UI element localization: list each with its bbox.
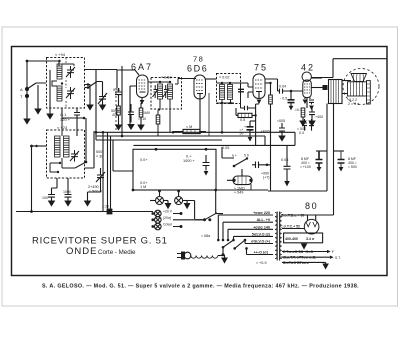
wire	[218, 255, 223, 257]
node	[57, 171, 59, 173]
arrow down 2	[183, 200, 188, 202]
bus	[96, 139, 222, 141]
loudspeaker	[343, 69, 379, 107]
wire	[85, 84, 91, 86]
electrolytic in box	[203, 155, 210, 171]
node	[254, 114, 256, 116]
wire	[31, 146, 33, 212]
svg-text:0.04: 0.04	[279, 85, 286, 89]
audio section box	[113, 140, 291, 214]
svg-text:- 0.5: - 0.5	[280, 97, 287, 101]
rectifier 80 circuit	[268, 104, 341, 269]
node	[95, 131, 98, 134]
svg-text:500: 500	[96, 150, 102, 154]
wire diode load	[241, 83, 254, 98]
ground	[47, 114, 53, 119]
wire to ground arrow	[89, 85, 91, 106]
secondary winding bumps	[280, 213, 282, 259]
svg-text:3.4 σ: 3.4 σ	[306, 237, 315, 241]
tube 80 filaments	[306, 222, 317, 227]
svg-text:75: 75	[254, 63, 268, 73]
capacitor IF2	[238, 89, 244, 92]
wire riser	[102, 132, 104, 211]
switch wire to coil box	[27, 83, 46, 89]
svg-text:42: 42	[301, 63, 315, 73]
stub	[334, 150, 345, 152]
svg-text:78: 78	[193, 55, 204, 64]
coupling to 42	[265, 79, 303, 110]
node	[290, 90, 293, 93]
svg-text:0.01: 0.01	[113, 88, 120, 92]
cathode arrow	[303, 100, 308, 105]
wire from bus	[110, 208, 112, 210]
resistor M horizontal	[183, 129, 200, 133]
coil IF1a	[158, 84, 163, 99]
svg-text:≈ 30: ≈ 30	[96, 155, 103, 159]
node	[30, 210, 33, 213]
wire	[49, 70, 51, 114]
wire from 80 plate up	[333, 104, 335, 216]
resistor bias	[301, 108, 305, 117]
screen blob component	[323, 85, 328, 90]
tube 42 grids	[304, 84, 310, 93]
resistor 50M	[117, 106, 121, 115]
electrolytic pair	[302, 119, 307, 131]
tube 75 grids	[255, 80, 263, 88]
tube 75 envelope	[253, 74, 265, 99]
svg-text:ONDE: ONDE	[66, 246, 97, 257]
svg-text:≈ +94: ≈ +94	[55, 52, 66, 57]
resistor plate load	[269, 95, 273, 104]
field coil	[348, 82, 367, 96]
wire stub	[95, 132, 97, 140]
ground	[116, 125, 122, 130]
ground	[279, 136, 285, 141]
svg-text:≈ 0.02: ≈ 0.02	[219, 76, 230, 80]
svg-text:2 = 4 σ: 2 = 4 σ	[348, 102, 360, 106]
jack 3	[151, 223, 161, 230]
node	[87, 83, 90, 86]
wire	[62, 64, 74, 66]
svg-text:0.+: 0.+	[186, 155, 192, 159]
secondary row 3	[282, 261, 326, 263]
bus	[134, 144, 296, 146]
secondary row 2	[282, 256, 330, 258]
wire risers right	[294, 132, 296, 145]
wire cathode	[199, 99, 201, 132]
cap	[309, 100, 314, 104]
arrow	[302, 243, 307, 249]
wire ground branch	[37, 85, 39, 109]
speaker dashed circle	[343, 69, 379, 105]
node	[158, 190, 161, 193]
svg-text:≈0.1: ≈0.1	[295, 108, 302, 112]
tap 140	[228, 229, 273, 240]
wire	[140, 103, 142, 125]
tube 6A7 grids	[139, 80, 147, 89]
wire grid lead 6D6	[178, 79, 196, 85]
svg-text:Corte - Medie: Corte - Medie	[98, 249, 136, 256]
wire	[50, 163, 58, 172]
node	[323, 86, 326, 89]
wire	[270, 83, 272, 95]
tap 110	[245, 243, 273, 245]
speaker cone	[351, 74, 367, 82]
trimmer C1	[66, 66, 75, 78]
electrolytic C2 8MF	[338, 160, 345, 164]
HT secondary top	[282, 214, 334, 216]
svg-text:≈ S49: ≈ S49	[234, 191, 243, 195]
svg-text:1000: 1000	[63, 190, 71, 194]
wire	[113, 140, 133, 171]
svg-text:+400: +400	[315, 115, 323, 119]
svg-text:ALL. +0: ALL. +0	[257, 218, 270, 222]
coil IF2a	[220, 85, 225, 100]
svg-text:S. A. GELOSO. — Mod. G. 51. —: S. A. GELOSO. — Mod. G. 51. — Super 5 va…	[42, 284, 359, 290]
coil L2b	[64, 136, 70, 157]
power transformer	[201, 211, 282, 265]
plug	[177, 254, 181, 258]
electrolytic grid leak	[290, 91, 292, 100]
wire plate to transformer	[311, 77, 322, 79]
svg-text:B.σ.T.B.σ.+ 30: B.σ.T.B.σ.+ 30	[281, 214, 304, 218]
speaker terminal strip	[367, 81, 371, 104]
cap 0.05	[279, 123, 285, 136]
wire	[264, 136, 266, 145]
bottom bus wire	[16, 211, 107, 213]
tube 80 plate leads	[308, 215, 316, 220]
ground	[100, 105, 106, 110]
svg-text:1:30: 1:30	[102, 205, 109, 209]
ground	[87, 105, 93, 110]
svg-text:≈ 08a: ≈ 08a	[201, 234, 211, 238]
svg-text:+: +	[244, 125, 246, 129]
wire cathode	[305, 98, 310, 109]
pot 1M volume	[233, 176, 252, 185]
node	[58, 60, 60, 62]
tube 75 cathode	[256, 92, 262, 99]
cap bias	[309, 106, 315, 119]
wire	[303, 117, 312, 121]
svg-text:9 +: 9 +	[232, 154, 237, 158]
node	[221, 102, 223, 104]
wire	[158, 99, 160, 115]
svg-text:6D6: 6D6	[187, 64, 208, 74]
svg-text:0.5: 0.5	[240, 118, 245, 122]
cord loops	[191, 256, 218, 259]
cap tone	[252, 162, 271, 169]
coil IF1b	[168, 84, 173, 99]
svg-text:+σσσ 220: +σσσ 220	[253, 211, 270, 215]
wire grid cap	[117, 70, 139, 75]
node	[180, 212, 183, 215]
tap low	[250, 254, 273, 256]
svg-text:400-400: 400-400	[285, 237, 298, 241]
internal partition	[65, 58, 67, 109]
wire	[88, 183, 101, 201]
wire	[85, 87, 89, 89]
capacitor 100	[48, 188, 55, 201]
wire screen	[311, 87, 325, 89]
lamp lead	[178, 191, 180, 197]
filter capacitors right	[300, 151, 357, 172]
wire cathode column	[256, 104, 259, 145]
wire plate	[265, 82, 271, 84]
wires	[173, 214, 205, 227]
ground arrow	[323, 262, 328, 268]
svg-text:2+490: 2+490	[88, 185, 99, 189]
trimmer C2	[66, 87, 75, 99]
B plus riser	[333, 59, 387, 78]
wire	[282, 228, 304, 230]
wire 42 plate to OT	[311, 77, 333, 79]
core lines	[277, 212, 279, 261]
svg-text:RICEVITORE SUPER G. 51: RICEVITORE SUPER G. 51	[32, 236, 168, 247]
pilot lamp network	[102, 190, 217, 230]
trimmer IF1a	[153, 85, 159, 98]
svg-text:≈ 6.5σ: ≈ 6.5σ	[161, 76, 172, 80]
svg-text:σGLV.O (+): σGLV.O (+)	[251, 240, 271, 244]
capacitor diode filter	[241, 106, 256, 110]
svg-text:1000 +: 1000 +	[183, 159, 196, 163]
arrow	[284, 181, 290, 186]
capacitor 1000	[65, 178, 72, 201]
svg-text:F: F	[332, 250, 334, 254]
wires antenna section	[62, 70, 117, 212]
wire riser	[110, 136, 112, 209]
wire riser	[121, 66, 123, 136]
lamp lead	[159, 191, 161, 197]
wire IF2 column down to switch	[222, 147, 234, 158]
IF transformer 1	[148, 76, 196, 137]
wire plate to grid	[148, 81, 170, 83]
coil IF2b	[228, 85, 233, 100]
6D6 stage	[194, 75, 217, 136]
capacitor	[128, 104, 134, 123]
svg-text:≈ M: ≈ M	[186, 125, 192, 129]
wire	[117, 70, 137, 128]
tube 6D6 cathode	[197, 94, 203, 100]
switch levers	[223, 240, 245, 248]
node antenna top	[26, 60, 29, 63]
tap 125	[234, 236, 274, 240]
6A7 stage	[111, 66, 150, 136]
trimmer IF1b	[163, 85, 169, 98]
switch tone	[234, 159, 247, 167]
wire	[236, 108, 256, 115]
svg-text:E.T.σ.σO 5Ω +5.-O: E.T.σ.σO 5Ω +5.-O	[283, 250, 313, 254]
ground	[49, 201, 55, 206]
mains plug and cord	[177, 252, 223, 260]
trimmer C osc2	[70, 150, 79, 162]
wire	[217, 100, 235, 133]
switch osc	[62, 158, 86, 168]
wire	[217, 82, 241, 84]
oscillator section wires	[16, 118, 108, 213]
svg-text:80: 80	[305, 201, 318, 211]
bottom wire to OT	[216, 189, 268, 191]
tube 6D6 envelope	[194, 75, 206, 99]
ground arrow mains	[222, 255, 227, 263]
wire	[270, 104, 272, 191]
wire	[173, 131, 206, 133]
wire	[227, 169, 242, 180]
jack 2	[151, 217, 161, 224]
svg-text:≈ 500: ≈ 500	[348, 165, 357, 169]
arrow	[204, 171, 209, 176]
svg-text:C.σ.T.C.+ 52: C.σ.T.C.+ 52	[280, 225, 300, 229]
output transformer	[311, 59, 387, 104]
wire top bus	[27, 61, 59, 66]
wire	[85, 69, 118, 71]
svg-text:1 M: 1 M	[140, 185, 146, 189]
switch lever	[88, 82, 103, 88]
svg-text:≈005: ≈005	[277, 119, 285, 123]
wire	[268, 104, 327, 192]
decoupling right of 75	[277, 119, 314, 141]
wire riser	[107, 132, 109, 208]
svg-text:(20σ): (20σ)	[163, 216, 171, 220]
svg-text:5σLV.O (2): 5σLV.O (2)	[252, 232, 271, 236]
node	[30, 145, 33, 148]
svg-text:0.0+: 0.0+	[140, 158, 148, 162]
tube 6D6 grids	[196, 80, 204, 91]
ground	[138, 125, 144, 130]
resistor AVC	[156, 115, 160, 124]
svg-text:A: A	[20, 87, 23, 92]
wire box edge down	[216, 190, 223, 214]
ground	[300, 121, 306, 126]
wire plate	[206, 78, 217, 80]
tube 42 envelope	[302, 72, 311, 81]
tube 6A7 cathode	[140, 92, 146, 104]
arrow down 1	[164, 200, 169, 202]
primary tap 220	[218, 215, 273, 240]
oscillator coil box L2	[47, 108, 88, 178]
node	[85, 161, 88, 164]
lamp 1	[156, 197, 164, 205]
resistor 0.5 horizontal	[238, 113, 252, 117]
schematic border frame	[12, 47, 388, 276]
wire	[157, 124, 159, 136]
RF coil box L1	[47, 52, 85, 108]
wire plate elbow	[265, 79, 278, 91]
svg-text:≈+10: ≈+10	[138, 117, 146, 121]
svg-text:+20 V: +20 V	[163, 210, 173, 214]
wire	[62, 108, 84, 118]
wire	[61, 108, 63, 136]
resistor 1M0	[139, 108, 143, 117]
cathode arrow	[257, 100, 262, 105]
svg-text:++-O (σ): ++-O (σ)	[254, 251, 269, 255]
svg-text:100: 100	[42, 196, 48, 200]
wire	[240, 83, 242, 108]
svg-text:400: 400	[112, 113, 118, 117]
node	[155, 148, 158, 151]
arrow	[248, 137, 253, 142]
electrolytic C1 8MF	[316, 151, 323, 167]
ground	[65, 201, 71, 206]
ground	[128, 125, 134, 130]
padder trimmer 500	[96, 168, 105, 183]
variable capacitor CV	[98, 82, 107, 106]
wire	[118, 99, 120, 125]
gang link dashed	[115, 88, 117, 132]
coil L1a	[57, 64, 62, 79]
node A	[25, 87, 29, 91]
svg-text:5 0: 5 0	[244, 154, 249, 158]
coil L2a	[55, 136, 61, 157]
stub	[316, 150, 327, 152]
wire	[250, 120, 256, 122]
tube 6A7 envelope	[137, 75, 149, 98]
coupling capacitor G.1 320	[74, 108, 80, 136]
tube 80 envelope	[304, 219, 319, 234]
node	[159, 81, 161, 83]
wire	[112, 211, 153, 213]
node	[59, 162, 61, 164]
switch contacts	[222, 246, 225, 249]
arrow	[339, 167, 344, 172]
wire	[50, 162, 60, 164]
wire	[169, 99, 171, 132]
switch lever	[205, 213, 218, 220]
wire	[175, 83, 178, 85]
wire riser	[85, 131, 95, 168]
antenna lead wire	[26, 61, 28, 119]
svg-text:≈ +100: ≈ +100	[300, 165, 311, 169]
svg-text:(+7): (+7)	[263, 176, 270, 180]
wire	[32, 145, 47, 147]
wire screen	[208, 93, 210, 136]
svg-text:+σσσ 140: +σσσ 140	[253, 225, 270, 229]
node	[269, 82, 271, 84]
filter box	[284, 233, 323, 243]
wire	[95, 70, 97, 132]
svg-text:0.05: 0.05	[222, 146, 229, 150]
arrow	[289, 106, 294, 111]
wire	[245, 240, 250, 255]
secondary row 1	[282, 251, 327, 253]
ground	[309, 121, 315, 126]
long buses	[95, 70, 295, 145]
svg-text:B.σTσO BTσσσ: B.σTσO BTσσσ	[283, 261, 310, 265]
arrow	[309, 106, 314, 111]
wire	[52, 81, 57, 86]
ground lead arrow	[140, 100, 145, 104]
42 stage	[295, 72, 327, 126]
capacitor 0.04	[278, 89, 283, 94]
node	[83, 117, 86, 120]
node	[221, 82, 223, 84]
arrow	[317, 167, 322, 172]
cap 0.05 right	[284, 145, 291, 181]
75 stage	[236, 74, 272, 191]
black square fuse	[107, 209, 113, 215]
coil L1b	[57, 86, 62, 101]
svg-text:Cσwσ: Cσwσ	[163, 223, 173, 227]
AVC bus	[96, 135, 265, 137]
B+ bus	[96, 131, 295, 133]
wire	[222, 247, 224, 255]
wire to 42 grid	[283, 90, 303, 92]
wire	[52, 178, 58, 188]
capacitor 0.01	[115, 88, 122, 99]
wires to speaker	[342, 81, 351, 94]
wire	[195, 219, 205, 221]
ground antenna	[24, 119, 30, 124]
svg-text:1M0: 1M0	[143, 111, 150, 115]
